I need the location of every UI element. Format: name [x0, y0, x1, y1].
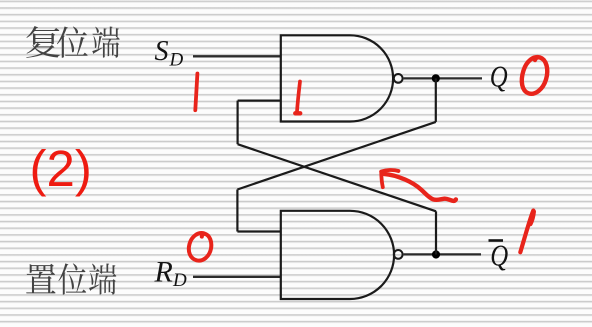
red annotation 0 at Q	[522, 57, 547, 94]
svg-text:(2): (2)	[30, 140, 92, 197]
svg-text:S: S	[155, 36, 169, 67]
nand gate G2 output bubble	[394, 250, 403, 259]
wire feedback Qbar diagonal	[238, 144, 436, 211]
wire feedback Qbar vertical to G1 input level	[237, 101, 239, 145]
node Qbar junction dot	[432, 250, 440, 258]
wire feedback Q diagonal	[237, 122, 435, 190]
red annotation arrow shaft	[384, 174, 456, 201]
svg-text:Q: Q	[490, 239, 508, 273]
label 复位端 (reset terminal)	[26, 26, 60, 58]
nand gate G1 output bubble	[394, 74, 403, 83]
red annotation 1 inside G1	[297, 82, 300, 112]
svg-text:Q: Q	[490, 60, 508, 94]
Qbar overline	[489, 239, 504, 242]
node Q junction dot	[432, 74, 440, 82]
nand gate G2 body (bottom)	[281, 211, 394, 299]
nand gate G1 body (top)	[281, 35, 393, 121]
svg-text:D: D	[172, 270, 187, 291]
wire feedback Q vertical to G2 input level	[236, 190, 238, 232]
wire SD input to gate G1	[193, 55, 281, 57]
svg-text:R: R	[154, 256, 173, 289]
red annotation arrow head down stroke	[381, 172, 383, 188]
wire feedback Qbar to G1: vertical rise	[435, 211, 437, 254]
wire G2 output to Qbar	[404, 253, 481, 255]
red annotation 0 at RD	[189, 233, 211, 261]
wire G1 output to Q	[404, 77, 482, 79]
wire feedback Q horizontal into G2 input	[237, 230, 281, 232]
wire feedback Qbar horizontal into G1 input	[238, 99, 281, 101]
wire RD input to gate G2	[193, 276, 281, 278]
red annotation 1 at SD	[195, 74, 197, 111]
red annotation arrow head right stroke	[381, 170, 398, 172]
wire feedback Q to G2: vertical drop	[435, 78, 437, 122]
red annotation 1 at Qbar	[520, 211, 533, 253]
svg-text:D: D	[169, 49, 184, 70]
label 置位端 (set terminal)	[26, 264, 55, 294]
